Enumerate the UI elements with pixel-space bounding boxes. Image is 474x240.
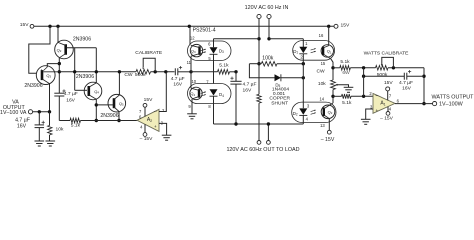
svg-text:15V: 15V	[144, 97, 153, 103]
svg-text:Q1: Q1	[327, 49, 332, 55]
svg-text:16V: 16V	[17, 123, 27, 129]
svg-text:1V–100 VA: 1V–100 VA	[0, 110, 27, 116]
svg-text:100k: 100k	[262, 55, 274, 61]
svg-text:4.7 µF: 4.7 µF	[399, 80, 413, 86]
svg-text:6W: 6W	[342, 70, 350, 76]
svg-text:2N3906: 2N3906	[73, 36, 91, 42]
svg-text:4.7 µF: 4.7 µF	[243, 81, 257, 87]
svg-text:WATTS CALIBRATE: WATTS CALIBRATE	[364, 50, 409, 56]
svg-text:Q3: Q3	[191, 48, 196, 54]
svg-text:– 15V: – 15V	[140, 136, 154, 142]
svg-text:2N3906: 2N3906	[24, 83, 42, 89]
svg-text:CALIBRATE: CALIBRATE	[135, 50, 163, 56]
svg-text:CW: CW	[317, 68, 326, 74]
svg-text:2N3906: 2N3906	[76, 74, 94, 80]
svg-text:Q4: Q4	[190, 91, 195, 97]
svg-text:15: 15	[321, 61, 326, 66]
svg-text:D2: D2	[293, 111, 298, 117]
svg-text:Q2: Q2	[328, 110, 333, 116]
svg-text:CW: CW	[124, 72, 133, 78]
svg-text:5.1k: 5.1k	[340, 59, 350, 65]
svg-text:Q3: Q3	[46, 73, 51, 79]
svg-text:10: 10	[191, 79, 196, 84]
svg-text:5.1k: 5.1k	[219, 63, 229, 69]
svg-text:15V: 15V	[20, 22, 29, 28]
svg-text:1V–100W: 1V–100W	[439, 101, 464, 107]
svg-text:WATTS OUTPUT: WATTS OUTPUT	[432, 94, 474, 100]
svg-text:Q4: Q4	[94, 89, 99, 95]
svg-text:D1: D1	[293, 49, 298, 55]
svg-text:16V: 16V	[173, 82, 182, 88]
svg-text:120V AC 60Hz OUT TO LOAD: 120V AC 60Hz OUT TO LOAD	[226, 147, 299, 153]
svg-text:– 15V: – 15V	[321, 137, 335, 143]
svg-text:Q5: Q5	[119, 101, 124, 107]
svg-text:D4: D4	[219, 92, 224, 98]
svg-text:4.7 µF: 4.7 µF	[171, 76, 185, 82]
svg-text:16V: 16V	[402, 86, 411, 92]
svg-text:+: +	[376, 108, 379, 113]
svg-text:14: 14	[319, 97, 324, 102]
svg-text:+: +	[154, 124, 157, 129]
svg-text:15V: 15V	[384, 80, 393, 86]
svg-text:–: –	[154, 109, 157, 115]
svg-text:500k: 500k	[135, 72, 146, 78]
svg-text:10k: 10k	[318, 81, 326, 87]
svg-text:–: –	[375, 93, 378, 99]
svg-text:5.1k: 5.1k	[71, 123, 81, 129]
svg-text:16V: 16V	[243, 87, 252, 93]
svg-text:16: 16	[319, 33, 324, 38]
svg-text:500k: 500k	[377, 72, 388, 78]
svg-text:5.1k: 5.1k	[342, 100, 352, 106]
svg-text:– 15V: – 15V	[380, 115, 394, 121]
svg-text:D3: D3	[219, 48, 224, 54]
svg-text:10k: 10k	[56, 127, 64, 133]
svg-text:16V: 16V	[66, 98, 75, 104]
svg-text:13: 13	[320, 123, 325, 128]
svg-text:PS2501-4: PS2501-4	[193, 27, 216, 33]
svg-text:2N3906: 2N3906	[100, 113, 118, 119]
svg-text:SHUNT: SHUNT	[271, 100, 288, 106]
svg-text:120V AC 60 Hz IN: 120V AC 60 Hz IN	[245, 5, 289, 11]
svg-text:15V: 15V	[341, 23, 350, 29]
svg-text:12: 12	[190, 35, 195, 40]
svg-text:4.7 µF: 4.7 µF	[64, 91, 78, 97]
svg-text:Q2: Q2	[57, 47, 62, 53]
